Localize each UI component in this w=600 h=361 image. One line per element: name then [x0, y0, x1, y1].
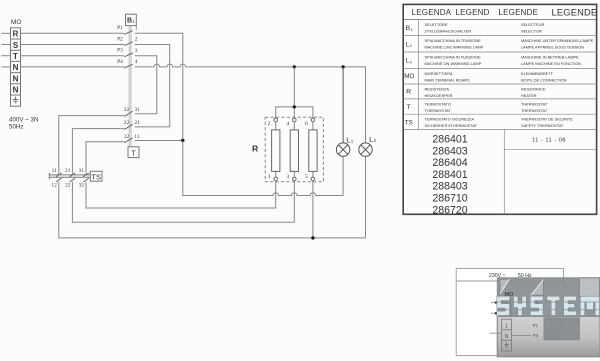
node T5 junction	[311, 236, 314, 239]
svg-text:SELECTOR: SELECTOR	[521, 29, 542, 34]
svg-text:P1: P1	[533, 323, 539, 328]
watermark logo	[497, 278, 600, 357]
svg-text:MASCHINE IN BETRIEB-LAMPE: MASCHINE IN BETRIEB-LAMPE	[521, 55, 579, 60]
svg-text:P4: P4	[533, 333, 539, 338]
svg-text:1: 1	[505, 324, 508, 330]
svg-text:N: N	[13, 74, 19, 83]
svg-text:1: 1	[135, 26, 138, 32]
svg-text:2: 2	[410, 60, 413, 65]
svg-text:286720: 286720	[432, 204, 467, 216]
legend date cell	[504, 129, 596, 214]
node bus junction	[293, 105, 296, 108]
wire 11 to node A	[135, 140, 183, 142]
svg-text:4: 4	[286, 121, 289, 127]
svg-text:288401: 288401	[432, 169, 467, 181]
svg-text:286710: 286710	[432, 193, 467, 205]
svg-text:3: 3	[286, 174, 289, 180]
svg-text:TERMOSTATO SICUREZZA: TERMOSTATO SICUREZZA	[425, 117, 475, 122]
heater bank R dashed box	[265, 117, 323, 182]
svg-text:22: 22	[124, 120, 130, 126]
TS labels 11 21 31	[52, 168, 85, 174]
inset lower terminal block	[490, 319, 512, 351]
wire 2	[135, 45, 170, 127]
heater element 5-6	[305, 118, 317, 181]
svg-text:HEATER: HEATER	[521, 93, 537, 98]
wire 32 to TS pole1	[59, 116, 125, 174]
svg-text:T: T	[407, 104, 411, 111]
svg-text:5: 5	[305, 174, 308, 180]
svg-text:MORSETTIERA: MORSETTIERA	[425, 71, 454, 76]
wire 3	[135, 56, 157, 114]
L1 label	[346, 135, 353, 144]
wire 22 to TS pole2	[72, 129, 124, 174]
contact 12-11	[124, 134, 140, 143]
svg-text:P4: P4	[117, 59, 123, 65]
R feed bus	[276, 67, 313, 118]
heater element 3-4	[286, 118, 298, 181]
svg-text:11: 11	[52, 168, 57, 174]
svg-text:6: 6	[305, 121, 308, 127]
svg-text:21: 21	[134, 120, 140, 126]
svg-text:P3: P3	[117, 48, 123, 54]
svg-text:LEGENDE: LEGENDE	[552, 7, 598, 17]
svg-text:286401: 286401	[432, 134, 467, 146]
selector switch B1	[126, 14, 137, 25]
contact P4-4	[117, 59, 138, 68]
svg-text:SPIA MACCHINA IN FUNZIONE: SPIA MACCHINA IN FUNZIONE	[425, 55, 482, 60]
wire T to P3	[21, 55, 125, 57]
wire stub T	[2, 55, 11, 57]
svg-text:MASCHINE UNTER SPANNUNG-LAMPE: MASCHINE UNTER SPANNUNG-LAMPE	[521, 38, 594, 43]
corner inset box	[456, 268, 563, 355]
svg-text:3: 3	[135, 48, 138, 54]
svg-text:R: R	[13, 30, 19, 39]
contact 32-31	[124, 107, 140, 117]
wire R terminal 5 drop	[312, 181, 314, 238]
svg-text:S: S	[13, 41, 19, 50]
svg-text:1: 1	[410, 27, 413, 32]
svg-text:MAIN TERMINAL BOARD: MAIN TERMINAL BOARD	[425, 77, 470, 82]
svg-text:T: T	[131, 149, 136, 158]
svg-text:MO: MO	[404, 73, 414, 80]
svg-text:MO: MO	[11, 19, 21, 26]
svg-text:4: 4	[135, 59, 138, 65]
wire R to P1	[21, 32, 125, 34]
svg-text:SPIA MACCHINA IN TENSIONE: SPIA MACCHINA IN TENSIONE	[425, 38, 482, 43]
wire stub S	[2, 44, 11, 46]
node N-L1 junction	[342, 65, 345, 68]
svg-text:TS: TS	[91, 172, 101, 181]
node N-R junction	[293, 65, 296, 68]
terminal block MO	[11, 28, 21, 106]
svg-text:21: 21	[65, 168, 71, 174]
svg-text:31: 31	[134, 107, 140, 113]
supply label 400V ~ 3N 50Hz	[9, 117, 38, 131]
lamp L1	[336, 67, 349, 156]
legend table	[403, 4, 597, 214]
wire TS pole2 to R terminal 3	[72, 181, 294, 223]
legend symbols column	[404, 25, 414, 127]
svg-text:32: 32	[124, 107, 130, 113]
thermostat T	[128, 147, 139, 158]
svg-text:HEIZKOERPER: HEIZKOERPER	[425, 93, 453, 98]
wire N to P4	[21, 66, 125, 68]
svg-text:SELETTORE: SELETTORE	[425, 22, 448, 27]
contact P3-3	[117, 48, 138, 57]
svg-text:SAFETY THERMOSTAT: SAFETY THERMOSTAT	[521, 123, 564, 128]
svg-text:50Hz: 50Hz	[9, 124, 23, 131]
contact P1-1	[117, 25, 138, 34]
svg-text:12: 12	[124, 134, 130, 140]
svg-text:RESISTANCE: RESISTANCE	[521, 87, 546, 92]
svg-text:11 - 11 - 08: 11 - 11 - 08	[532, 137, 566, 143]
heater element 1-2	[268, 118, 280, 181]
svg-text:BOITE DE CONNECTION: BOITE DE CONNECTION	[521, 77, 567, 82]
svg-text:1: 1	[351, 139, 354, 144]
inset wire to P4	[512, 335, 532, 337]
inset upper terminals	[491, 299, 511, 316]
watermark SYSTEM letters	[497, 296, 600, 315]
svg-text:LAMPE APPAREIL SOUS TENSION: LAMPE APPAREIL SOUS TENSION	[521, 44, 584, 49]
wire stub R	[2, 32, 11, 34]
node A junction	[181, 139, 184, 142]
contact 22-21	[124, 120, 140, 130]
svg-text:31: 31	[79, 168, 85, 174]
svg-text:MACHINE LIVE WARNING LAMP: MACHINE LIVE WARNING LAMP	[425, 44, 484, 49]
wire node A to lamp L1 (with hops)	[183, 141, 343, 196]
svg-text:TERMOSTATO: TERMOSTATO	[425, 101, 451, 106]
svg-text:LEGEND: LEGEND	[456, 8, 490, 17]
svg-text:288403: 288403	[432, 181, 467, 193]
wire 31 up to wire3	[135, 113, 157, 115]
svg-text:286404: 286404	[432, 157, 467, 169]
svg-text:286403: 286403	[432, 145, 467, 157]
svg-text:LEGENDE: LEGENDE	[499, 8, 539, 17]
svg-text:12: 12	[51, 182, 57, 188]
lamp L2	[359, 143, 372, 156]
row lines	[403, 36, 596, 130]
svg-text:THERMOSTAT: THERMOSTAT	[521, 101, 548, 106]
svg-text:N: N	[505, 334, 509, 340]
wire 1 to node A	[135, 33, 183, 140]
B1 mechanical link	[129, 26, 131, 147]
svg-text:R: R	[406, 89, 411, 96]
svg-text:2: 2	[268, 121, 271, 127]
watermark letter seams	[497, 302, 600, 310]
wire S to P2	[21, 44, 125, 46]
svg-text:TS: TS	[405, 120, 413, 127]
TS labels 12 22 32	[51, 182, 84, 188]
svg-text:RESISTENZA: RESISTENZA	[425, 87, 450, 92]
wire TS pole1 to R terminal 5 and lamp L2	[59, 156, 366, 238]
wire TS pole3 to R terminal 1	[86, 181, 276, 208]
wire 12 to TS pole3	[86, 142, 124, 174]
legend row texts	[425, 22, 594, 128]
TS contact ticks	[56, 173, 89, 182]
svg-text:400V ~ 3N: 400V ~ 3N	[9, 117, 38, 124]
svg-text:N: N	[13, 63, 19, 72]
svg-text:ZYKLUSWAHLSCHALTER: ZYKLUSWAHLSCHALTER	[425, 29, 472, 34]
svg-text:SICHERHEITSTHERMOSTAT: SICHERHEITSTHERMOSTAT	[425, 123, 478, 128]
L2 label	[369, 135, 376, 144]
wire N line with hops	[135, 64, 366, 143]
svg-text:KLEMMENBRETT: KLEMMENBRETT	[521, 71, 554, 76]
svg-text:THERMOSTAT DE SICURITE: THERMOSTAT DE SICURITE	[521, 117, 573, 122]
svg-text:11: 11	[134, 134, 139, 140]
inset P labels	[533, 299, 539, 338]
svg-text:SELECTEUR: SELECTEUR	[521, 22, 545, 27]
svg-text:1: 1	[132, 19, 135, 24]
wire stub N	[2, 66, 11, 68]
svg-text:LAMPE MACHINE EN FONCTION: LAMPE MACHINE EN FONCTION	[521, 61, 581, 66]
contact P2-2	[117, 36, 138, 45]
svg-text:P1: P1	[117, 25, 123, 31]
svg-text:THERMOSTAT: THERMOSTAT	[521, 108, 548, 113]
svg-text:LEGENDA: LEGENDA	[412, 8, 452, 17]
svg-text:N: N	[13, 86, 19, 95]
safety thermostat TS	[49, 171, 102, 181]
svg-text:1: 1	[410, 43, 413, 48]
svg-text:22: 22	[65, 182, 71, 188]
svg-text:P2: P2	[117, 36, 123, 42]
svg-text:R: R	[252, 144, 258, 154]
svg-text:THERMOSTAT: THERMOSTAT	[425, 108, 452, 113]
svg-text:1: 1	[268, 174, 271, 180]
svg-text:2: 2	[374, 138, 377, 143]
ground symbol in MO	[13, 97, 19, 103]
svg-text:MACHINE ON WARMING LAMP: MACHINE ON WARMING LAMP	[425, 61, 482, 66]
svg-text:2: 2	[135, 37, 138, 43]
svg-text:T: T	[13, 52, 18, 61]
legend code numbers	[432, 134, 467, 217]
svg-text:32: 32	[79, 182, 85, 188]
wire 21 up to wire2	[135, 126, 170, 128]
